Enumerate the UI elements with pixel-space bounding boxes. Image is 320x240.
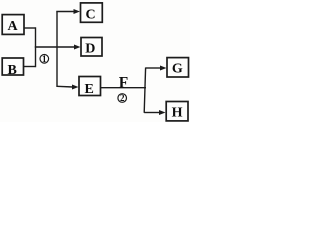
box D: [81, 38, 102, 57]
circled 1 label: [40, 54, 49, 64]
branch vertical line: [144, 68, 145, 113]
svg-text:E: E: [85, 82, 94, 97]
arrow branch to G: [146, 66, 167, 71]
box H: [166, 102, 188, 121]
box A: [2, 15, 24, 35]
svg-text:D: D: [85, 41, 95, 56]
box G: [167, 58, 189, 77]
svg-text:A: A: [8, 19, 19, 34]
arrow trunk to C: [56, 9, 80, 14]
wire from A right side: [24, 27, 36, 29]
box E: [79, 77, 101, 98]
trunk vertical line: [56, 12, 58, 88]
arrow trunk to E: [57, 85, 79, 90]
svg-text:C: C: [85, 8, 95, 23]
svg-text:B: B: [8, 63, 17, 78]
svg-text:1: 1: [42, 54, 47, 64]
junction vertical joining A and B wires: [35, 27, 37, 67]
svg-text:2: 2: [120, 93, 125, 103]
wire junction to D with arrowhead: [35, 45, 81, 50]
circled 2 label: [118, 93, 127, 103]
wire E to branch point: [101, 87, 147, 89]
svg-text:H: H: [172, 106, 183, 121]
svg-text:G: G: [172, 62, 183, 77]
svg-text:F: F: [119, 74, 128, 91]
box C: [81, 3, 103, 23]
box B: [2, 58, 23, 78]
arrow branch to H: [144, 110, 165, 115]
wire from B right side: [24, 66, 36, 68]
